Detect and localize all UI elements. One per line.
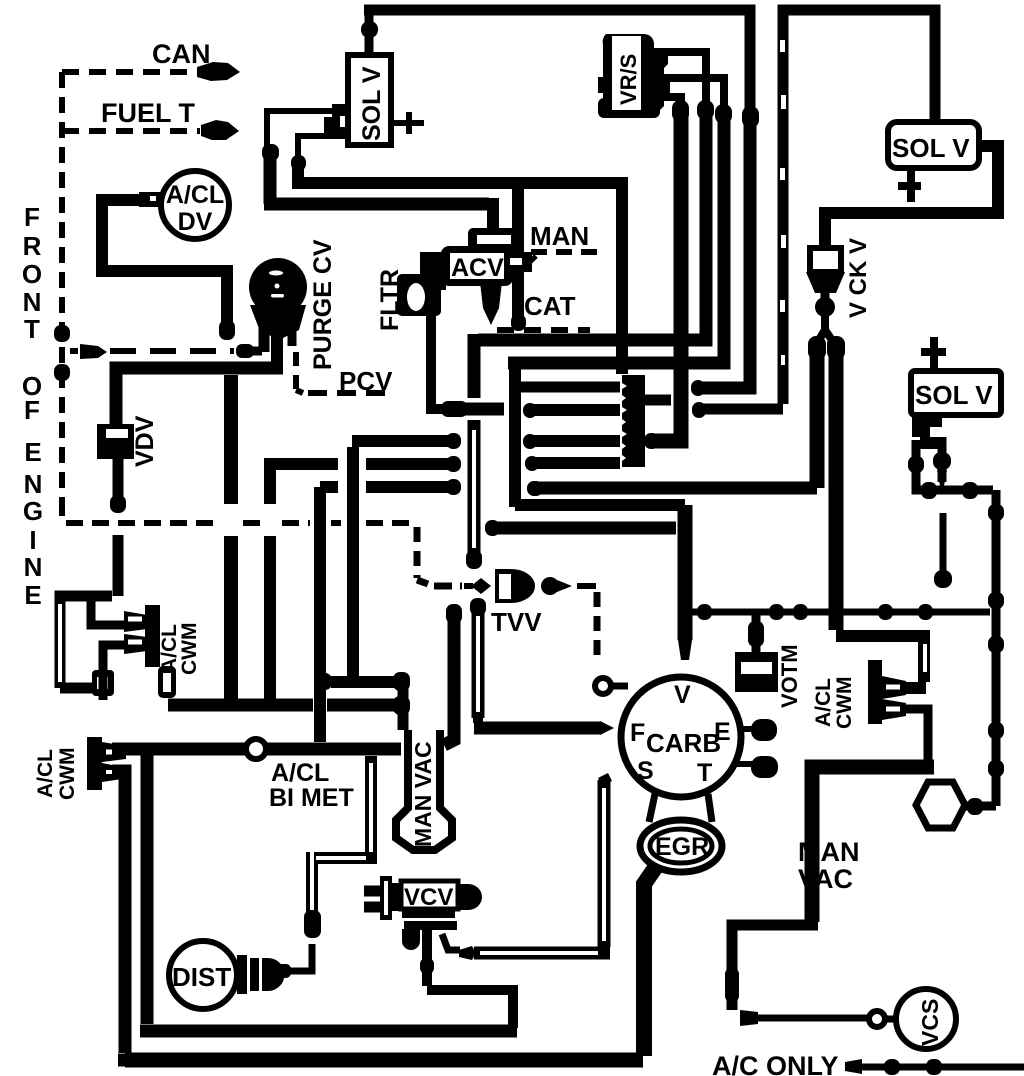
svg-text:CWM: CWM	[833, 677, 856, 729]
wire dashed vertical to TVV	[414, 527, 421, 578]
svg-text:CAN: CAN	[152, 39, 211, 69]
component VDV	[97, 424, 134, 459]
node DIST dot	[276, 964, 291, 978]
wire vertical into MAN VAC right rail	[444, 612, 454, 745]
wire PCV dashed horizontal	[296, 390, 391, 393]
svg-text:N: N	[23, 287, 42, 317]
component PURGE CV valve body	[250, 305, 306, 338]
node CWM1 bottom nipple	[124, 634, 147, 654]
svg-text:CAT: CAT	[524, 291, 576, 321]
svg-text:VOTM: VOTM	[777, 644, 802, 708]
wire V4 hose down to B3	[698, 120, 750, 388]
wire TVV dashed vertical down	[594, 592, 601, 662]
node SOL V1 connector	[324, 104, 348, 139]
node CAN arrow	[197, 62, 240, 81]
wire jog into CWM1 top nipple	[91, 598, 124, 625]
svg-text:VDV: VDV	[131, 415, 159, 467]
node SOL V3 connector	[912, 415, 942, 449]
node V CK V fork	[817, 330, 834, 343]
svg-text:SOL V: SOL V	[915, 380, 993, 410]
svg-text:G: G	[23, 496, 43, 526]
label FRONT OF ENGINE	[22, 202, 43, 610]
wire VCS line	[756, 1015, 868, 1022]
component TVV body	[497, 569, 535, 603]
svg-text:V: V	[674, 681, 691, 709]
svg-text:E: E	[24, 437, 41, 467]
component EGR ellipse	[640, 820, 722, 872]
wire left tooth bar 2 (y464) with corner X2	[270, 464, 338, 504]
wire V5 and line to SOL V2	[783, 10, 935, 404]
wire ring to CARB	[611, 683, 628, 690]
svg-text:F: F	[630, 719, 645, 747]
svg-text:CWM: CWM	[56, 748, 79, 800]
wire L3 vertical to MAN VAC	[331, 447, 397, 682]
wire EGR down to bottom line	[644, 868, 655, 1056]
wire V1 hose down	[650, 114, 681, 441]
wire CV center vertical lower outlined	[468, 420, 481, 560]
component SOL V2 box	[888, 122, 979, 168]
wire dashed branch with arrow to purge valve	[70, 348, 78, 354]
node TVV right dot and taper	[541, 577, 559, 595]
svg-text:PCV: PCV	[339, 366, 393, 396]
svg-text:VCV: VCV	[404, 884, 453, 911]
wire VCV bottom stem to inner line	[427, 930, 513, 1028]
wire TVV right dash	[577, 583, 596, 589]
node TVV left diamond	[471, 578, 491, 594]
wire far right vertical	[992, 490, 1001, 806]
node SOL V3 plus above	[921, 337, 946, 371]
node A/CL DV nipple	[139, 192, 162, 207]
node VCV left prongs	[364, 891, 380, 907]
node VCS ring	[869, 1011, 885, 1027]
node CWM right bottom prong	[882, 699, 906, 720]
wire VDV line to left outlined hose	[60, 582, 118, 688]
svg-text:N: N	[24, 552, 43, 582]
svg-text:E: E	[24, 580, 41, 610]
node SOL V1 plus symbol	[391, 112, 424, 134]
node S hose arrow cap	[459, 946, 476, 960]
svg-text:F: F	[24, 395, 40, 425]
wire MAN VAC drop vertical	[398, 678, 409, 730]
component V CK V valve	[810, 248, 841, 272]
node SOL V2 plus below	[898, 168, 921, 202]
wire FUEL T dashed line	[62, 128, 200, 134]
svg-text:MAN: MAN	[530, 221, 589, 251]
wire purge valve right stem to PCV dashes	[288, 330, 297, 346]
svg-text:VCS: VCS	[917, 999, 943, 1046]
component FLTR filter	[420, 252, 446, 290]
wire far right vertical bottom link to hex	[962, 802, 996, 811]
wire hose X1 from purge line down	[224, 375, 238, 504]
wire frame vertical A to bottom outer line	[112, 771, 643, 1060]
wire jog into CWM1 bottom nipple	[103, 645, 124, 700]
node ACV bottom funnel	[480, 282, 502, 325]
component A/CL CWM right plate	[868, 660, 882, 724]
svg-text:MAN: MAN	[798, 837, 860, 867]
wire F port hose	[473, 712, 483, 723]
node tie line dots	[697, 604, 712, 620]
wire left tooth bar 3 (y487) with corner L2 to DIST	[320, 481, 448, 493]
node T port dot	[737, 761, 753, 767]
wire A/C ONLY line	[845, 1059, 862, 1074]
node arrow cap at VCS line	[740, 1010, 758, 1026]
svg-text:N: N	[24, 469, 43, 499]
wire VR/S connector 1 to V2	[660, 52, 706, 104]
wire bar D long hose	[534, 482, 817, 495]
svg-text:DIST: DIST	[172, 962, 231, 992]
wire y183 drop at x518 to CAT area	[512, 189, 524, 320]
svg-text:FUEL T: FUEL T	[101, 98, 196, 128]
node VCV right bullet	[458, 884, 482, 910]
node plug cap lower bar left	[158, 666, 176, 698]
wire VCV right link to S hose	[442, 934, 460, 950]
wire dashed corner at engine line bottom	[62, 500, 222, 523]
wire purge valve left leg	[259, 328, 270, 352]
node ring at CARB link	[595, 678, 611, 694]
component VOTM box	[735, 652, 778, 692]
component SOL V1 box	[348, 55, 391, 145]
node S port nipple	[600, 777, 610, 782]
wire VR/S connector 3 to V1	[655, 97, 681, 102]
svg-text:S: S	[637, 757, 654, 785]
wire C bottom arm to CARB V stem	[515, 499, 685, 511]
node BI MET open circle	[246, 739, 266, 759]
wire CARB V stem	[678, 505, 693, 640]
svg-text:EGR: EGR	[655, 833, 709, 861]
wire VR/S connector 2 to V3	[660, 78, 724, 108]
component SOL V1 stem and dot	[365, 10, 374, 55]
svg-text:VR/S: VR/S	[616, 54, 641, 105]
svg-text:PURGE CV: PURGE CV	[309, 239, 337, 370]
wire y204 line drop to ACV	[487, 198, 499, 232]
svg-text:A/CL: A/CL	[166, 181, 224, 209]
wire VDV bottom stem	[113, 459, 124, 504]
wire CV center vertical upper	[468, 334, 481, 398]
node V4 hose cap	[742, 106, 759, 128]
wire SOL V3 center stem	[938, 437, 947, 482]
svg-text:A/CL: A/CL	[34, 749, 57, 798]
node FUEL T arrow	[201, 120, 239, 140]
svg-text:BI MET: BI MET	[269, 784, 354, 812]
node hose cap purge foot	[236, 344, 254, 358]
wire SOL V3 left leg to y490 line	[916, 440, 993, 490]
wire DIST link up to outlined hose	[290, 944, 312, 971]
wire comb tooth y463	[530, 457, 620, 469]
node junction dot lower	[54, 364, 70, 381]
component A/CL CWM2 plate	[87, 737, 102, 790]
component ACV top nipple	[468, 228, 516, 252]
wire frame vertical B to bottom inner line	[140, 755, 517, 1031]
svg-text:R: R	[23, 231, 42, 261]
node CWM right top prong	[882, 676, 906, 699]
node CWM2 bottom prong	[102, 763, 122, 782]
svg-text:V CK V: V CK V	[845, 238, 872, 318]
label VR/S on white plate	[612, 36, 641, 110]
wire comb tooth0	[515, 382, 620, 393]
svg-text:FLTR: FLTR	[376, 269, 404, 331]
wire comb tooth y441	[528, 435, 620, 447]
component MAN VAC hex	[916, 782, 965, 828]
svg-text:T: T	[697, 759, 712, 787]
wire zipper mid bar	[645, 395, 671, 406]
svg-text:CWM: CWM	[178, 623, 201, 675]
wire V2 hose down to B1	[478, 112, 706, 340]
wire VOTM stem	[752, 612, 761, 652]
component VR/S body	[598, 34, 670, 116]
wire thick line purge to VDV	[116, 368, 283, 424]
node E port dot	[741, 726, 753, 732]
wire top line from SOL V1 to V4	[364, 10, 750, 110]
svg-text:A/C ONLY: A/C ONLY	[712, 1051, 839, 1076]
component VCS circle	[896, 989, 956, 1049]
svg-text:F: F	[24, 202, 40, 232]
component SOL V3 box	[911, 371, 1001, 415]
component PURGE CV valve head	[249, 258, 307, 316]
svg-text:SOL V: SOL V	[358, 66, 386, 141]
wire CAN dashed line	[62, 69, 196, 75]
wire SOL V1 hose A left-down to y204 line	[267, 111, 332, 150]
svg-text:CARB: CARB	[646, 728, 721, 758]
wire tie line y612	[692, 609, 990, 616]
svg-text:MAN VAC: MAN VAC	[410, 741, 436, 847]
wire A/CL BI MET line	[112, 743, 401, 756]
svg-text:T: T	[24, 314, 40, 344]
component ACV body	[441, 246, 513, 286]
component A/CL DV circle	[161, 171, 229, 239]
svg-text:I: I	[29, 525, 36, 555]
node ACV right nipple	[506, 252, 532, 272]
node plug cap into A/CL CWM1	[92, 670, 114, 696]
wire purge valve right leg	[271, 333, 283, 368]
node DIST ribbed nipple	[237, 955, 247, 994]
node junction dot upper	[54, 325, 70, 342]
wire SOL V1 hose B to y183 line	[298, 136, 340, 160]
node CWM2 top prong	[102, 742, 126, 762]
wire S port outlined hose	[474, 780, 610, 953]
svg-text:E: E	[714, 718, 731, 746]
component MAN VAC banner	[396, 730, 452, 850]
wire hose R corner to CWM right	[836, 636, 926, 688]
component CARB circle	[621, 677, 741, 797]
wire lower bar (y705) to MAN VAC	[168, 699, 313, 712]
wire CWM right bottom prong to VCS path	[906, 709, 928, 760]
wire A/CL DV hose down to dashed line	[102, 200, 227, 330]
svg-text:A/CL: A/CL	[271, 759, 329, 787]
svg-text:SOL V: SOL V	[892, 133, 970, 163]
wire front-of-engine dashed vertical	[59, 72, 65, 518]
svg-text:A/CL: A/CL	[812, 678, 835, 727]
wire left tooth bar 1 (y441)	[352, 435, 448, 447]
wire SOL V2 right elbow to V CK V	[825, 146, 998, 248]
wire comb tooth y410	[528, 404, 620, 416]
wire C-comb vertical	[509, 357, 521, 507]
wire B_b bar under comb	[492, 522, 676, 535]
node hose cap A/CL DV end	[219, 320, 235, 340]
svg-text:VAC: VAC	[798, 864, 853, 894]
component zipper textured bar	[622, 375, 645, 467]
svg-text:O: O	[22, 259, 42, 289]
svg-text:DV: DV	[178, 208, 213, 236]
component VCV box	[392, 883, 402, 911]
wire hose L up to cap	[810, 356, 825, 488]
wire V3 hose down to B2	[508, 116, 724, 363]
svg-text:TVV: TVV	[491, 607, 542, 637]
wire EGR links from CARB	[649, 794, 655, 822]
wire ACV elbow hose to comb	[431, 288, 448, 409]
wire B4 bar	[700, 404, 783, 415]
component A/CL CWM1 plate	[145, 605, 160, 667]
component DIST circle	[169, 941, 237, 1009]
node CWM1 top nipple	[124, 611, 147, 632]
component VCV plate	[380, 876, 392, 920]
texture white specks on V5	[780, 40, 786, 365]
wire outlined hose BI MET to DIST	[310, 756, 377, 916]
wire hose R down from cap	[829, 356, 844, 630]
svg-text:ACV: ACV	[451, 254, 504, 282]
component VCV lower flange	[402, 909, 455, 918]
